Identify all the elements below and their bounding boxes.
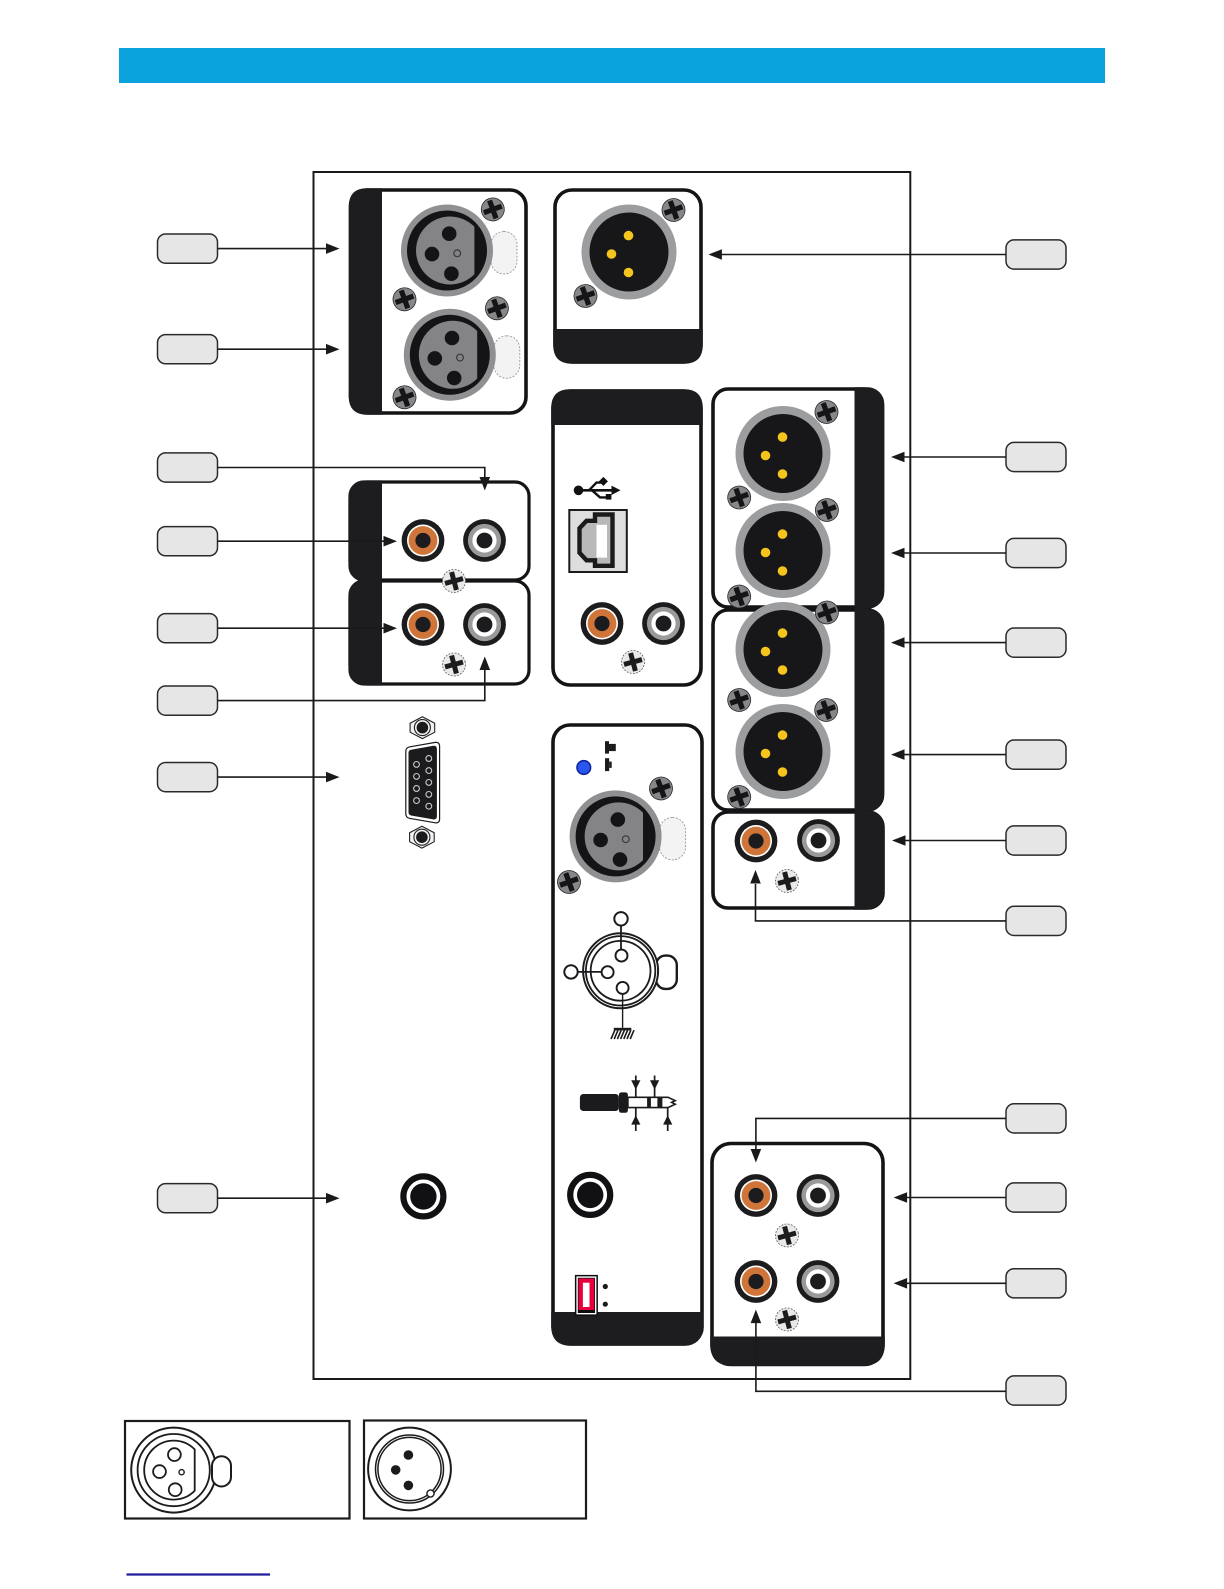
female XLR mic input 2 <box>404 309 520 401</box>
main mix jack socket <box>403 1176 443 1216</box>
wire L5 <box>218 623 398 634</box>
wire L1 <box>218 243 340 254</box>
RCA red jack play L <box>735 1174 778 1217</box>
panel outline frame <box>314 172 911 1379</box>
USB icon <box>574 477 621 500</box>
wire L2 <box>218 344 340 355</box>
female XLR mic input 1 <box>401 205 517 297</box>
callout label L3 <box>158 453 218 482</box>
screw <box>571 281 600 310</box>
RCA red jack 2-track out L <box>735 820 778 863</box>
callout label R1 <box>1006 240 1066 269</box>
callout label R6 <box>1006 826 1066 855</box>
callout label L2 <box>158 335 218 364</box>
screw <box>478 195 507 224</box>
wire R11 <box>751 1310 1006 1392</box>
callout label R10 <box>1006 1269 1066 1298</box>
callout label R4 <box>1006 628 1066 657</box>
screw <box>811 695 840 724</box>
wire R7 <box>750 870 1006 921</box>
male XLR aux R <box>736 704 831 799</box>
wire R8 <box>751 1118 1006 1162</box>
RCA white jack play R <box>797 1174 840 1217</box>
main output male XLR block <box>553 190 703 364</box>
screw <box>812 598 841 627</box>
RCA white jack USB block <box>642 602 685 645</box>
callout label L4 <box>158 527 218 556</box>
callout label R7 <box>1006 906 1066 935</box>
RCA white jack 2-track out R <box>797 819 840 862</box>
callout label L1 <box>158 234 218 263</box>
screw <box>659 195 688 224</box>
RCA white jack rec R <box>797 1260 840 1303</box>
screw <box>773 867 801 895</box>
callout label R11 <box>1006 1376 1066 1405</box>
signal flag icon large <box>605 741 616 753</box>
switch marker dot <box>603 1302 608 1307</box>
RCA red jack USB block <box>581 602 624 645</box>
callout label R2 <box>1006 442 1066 471</box>
RCA red jack tape out L <box>402 603 445 646</box>
callout label L5 <box>158 614 218 643</box>
footswitch / phones block <box>551 725 703 1346</box>
header title bar <box>119 48 1105 83</box>
USB type B port <box>569 510 627 572</box>
screw <box>440 650 468 678</box>
aux out male XLR block right lower <box>713 608 884 812</box>
switch marker dot <box>603 1284 608 1289</box>
tape input RCA block <box>348 480 529 581</box>
screw <box>440 567 468 595</box>
callout label L8 <box>158 1184 218 1213</box>
callout label R5 <box>1006 740 1066 769</box>
RCA red jack tape in L <box>402 519 445 562</box>
wire R5 <box>891 749 1006 760</box>
RCA red jack rec L <box>735 1260 778 1303</box>
screw <box>390 285 419 314</box>
male XLR aux L <box>736 602 831 697</box>
female XLR footswitch jack <box>570 790 686 882</box>
screw <box>812 495 841 524</box>
wire R4 <box>891 637 1006 648</box>
male XLR out L <box>736 406 831 501</box>
callout label L7 <box>158 763 218 792</box>
USB interface block <box>551 389 703 685</box>
wire R2 <box>891 452 1006 463</box>
mic input block (dual female XLR) <box>349 188 526 414</box>
footnote blue rule <box>127 1573 271 1575</box>
wire L7 <box>218 772 340 783</box>
2-track RCA quad block <box>710 1144 885 1366</box>
XLR pinout schematic <box>564 912 677 1039</box>
male XLR out R <box>736 503 831 598</box>
wire R3 <box>891 548 1006 559</box>
screw <box>646 774 675 803</box>
screw <box>724 582 753 611</box>
callout label R3 <box>1006 538 1066 567</box>
power switch <box>575 1275 598 1316</box>
tape output RCA block <box>348 579 529 685</box>
female XLR pinout box <box>125 1421 350 1519</box>
male XLR pinout box <box>364 1421 586 1519</box>
screw <box>390 383 419 412</box>
wire R6 <box>892 835 1006 846</box>
male XLR main output <box>582 205 677 300</box>
wire R9 <box>894 1192 1006 1203</box>
RCA white jack tape out R <box>463 603 506 646</box>
wire L4 <box>218 536 398 547</box>
phones jack socket <box>570 1175 610 1215</box>
screw <box>482 294 511 323</box>
signal flag icon small <box>605 758 612 771</box>
screw <box>619 648 647 676</box>
screw <box>724 483 753 512</box>
screw <box>724 782 753 811</box>
wire L6 <box>218 657 491 701</box>
screw <box>812 397 841 426</box>
blue LED indicator <box>577 761 591 775</box>
RCA white jack tape in R <box>463 519 506 562</box>
screw <box>554 867 583 896</box>
callout label L6 <box>158 686 218 715</box>
TRS plug schematic <box>580 1076 675 1132</box>
screw <box>773 1305 801 1333</box>
wire L8 <box>218 1193 340 1204</box>
wire L3 <box>218 468 491 491</box>
main out male XLR block right upper <box>713 387 884 609</box>
callout label R9 <box>1006 1183 1066 1212</box>
RCA output pair block right <box>713 810 885 910</box>
DB9 serial connector <box>406 717 440 848</box>
callout label R8 <box>1006 1104 1066 1133</box>
wire R10 <box>894 1278 1006 1289</box>
wire R1 <box>708 249 1006 260</box>
screw <box>773 1221 801 1249</box>
screw <box>724 685 753 714</box>
